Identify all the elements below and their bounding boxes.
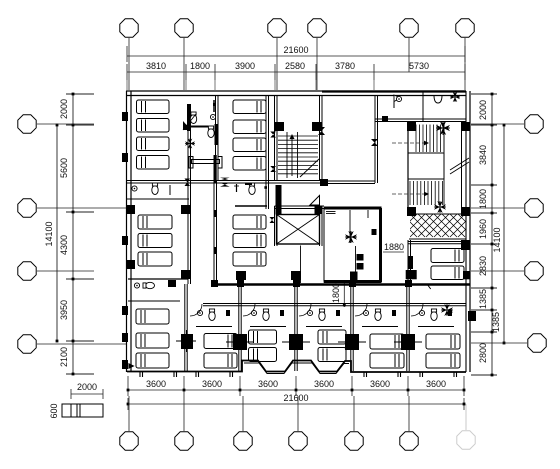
heavy room door stubs: [326, 211, 336, 213]
bottom module door arcs: [190, 304, 202, 316]
door line below elevator: [300, 246, 302, 284]
corridor door posts: [211, 280, 218, 287]
hatch walls: [409, 213, 466, 215]
label 1880: [383, 251, 404, 253]
bottom partitions: [184, 284, 186, 371]
fan top-right: [450, 92, 460, 102]
dim dots bottom: [127, 389, 130, 392]
wall room1/bath top-left: [187, 104, 189, 180]
stair break line: [300, 159, 319, 177]
grid bubble bottom 3: [242, 396, 244, 431]
wall hall/toilet top-right: [374, 95, 376, 121]
fan right stair bottom: [434, 201, 446, 213]
heavy room inner partition upper: [349, 210, 351, 243]
wall top-right rooms bottom: [375, 118, 466, 120]
bowtie stair wall lower: [270, 166, 276, 172]
bowties on mid-center top wall: [220, 178, 230, 181]
table below bath: [189, 157, 193, 169]
svg-text:4300: 4300: [59, 235, 69, 255]
left dim chain: [72, 94, 74, 374]
svg-text:1800: 1800: [331, 283, 341, 303]
svg-text:5600: 5600: [59, 158, 69, 178]
bed room1-2: [137, 119, 170, 133]
svg-text:2000: 2000: [59, 99, 69, 119]
column elevator left: [276, 185, 282, 215]
bottom-left fixtures: [134, 283, 139, 288]
outer wall top: [126, 90, 466, 92]
block heavy room bottom-left: [350, 272, 358, 281]
wall top band bottom: [126, 180, 322, 182]
bowtie stair wall upper: [270, 132, 276, 138]
toilet bath1: [190, 115, 196, 124]
svg-text:3600: 3600: [202, 379, 222, 389]
bowtie hall left wall: [318, 127, 325, 135]
column rstair B: [461, 122, 470, 131]
bed room1-1: [137, 100, 170, 114]
bed room1-3: [137, 137, 170, 151]
grid bubble right 4: [471, 342, 527, 344]
grid bubble top 3: [276, 38, 278, 90]
svg-text:2830: 2830: [478, 256, 488, 276]
door hall: [394, 95, 401, 102]
bottom-left module beds: [136, 309, 169, 324]
svg-text:3600: 3600: [426, 379, 446, 389]
heavy room stub right: [367, 210, 369, 218]
stair stringer: [286, 132, 288, 178]
bottom module 6 beds: [426, 334, 460, 349]
door bath1: [183, 121, 191, 130]
svg-text:1800: 1800: [478, 189, 488, 209]
bowtie left of elevator: [270, 217, 275, 223]
mid-left columns: [126, 205, 135, 214]
wardrobe blobs: [233, 334, 247, 350]
grid bubble bottom 4: [297, 396, 299, 431]
grid bubble bottom 1: [128, 396, 130, 431]
right stair rail diagonal: [450, 158, 469, 170]
svg-text:2000: 2000: [77, 382, 97, 392]
right module side columns: [461, 240, 470, 250]
grid bubble top 4: [316, 38, 318, 90]
svg-text:1385: 1385: [478, 289, 488, 309]
elevator door triangle: [310, 196, 320, 206]
grid bubble bottom 7 (light): [465, 404, 467, 430]
wall stairwell right: [319, 95, 321, 180]
bottom module 5 fixtures: [363, 310, 368, 315]
column rstair A: [407, 122, 416, 131]
grid bubble left 1: [37, 123, 94, 125]
grid bubble left 4: [37, 343, 127, 345]
bottom module 3 fixtures: [251, 310, 256, 315]
wall room2 right: [265, 95, 267, 180]
AC unit right exterior: [468, 311, 476, 321]
corridor north wall: [215, 283, 470, 286]
fan bottom right: [441, 304, 453, 316]
svg-text:3900: 3900: [235, 61, 255, 71]
bowtie hall right wall: [371, 139, 378, 146]
grid bubble bottom 6: [408, 396, 410, 431]
wall hall right: [374, 121, 376, 183]
grid bubble bottom 2: [183, 396, 185, 431]
wall stairwell left: [274, 95, 276, 180]
svg-text:2580: 2580: [285, 61, 305, 71]
mid-left module fixtures: [132, 186, 137, 191]
wall above elevator: [275, 205, 325, 207]
sink toprt: [396, 96, 401, 101]
grid bubble top 2: [183, 38, 185, 90]
column rstair C: [407, 207, 416, 216]
bottom facade wall: [127, 361, 466, 373]
wall mid-center module right: [265, 180, 267, 209]
desk heavy room: [357, 254, 364, 261]
grid bubble left 3: [37, 270, 94, 272]
grid bubble top 6: [464, 38, 466, 90]
elevator shaft: [277, 215, 320, 245]
grid bubble left 2: [37, 207, 127, 209]
facade window ticks: [139, 372, 141, 377]
bed room2-3: [233, 138, 266, 152]
svg-text:14100: 14100: [492, 227, 502, 252]
detail bed 2000x600: [62, 404, 103, 417]
grid bubble top 5: [408, 38, 410, 72]
corridor door jambs: [214, 210, 217, 217]
svg-text:600: 600: [49, 403, 59, 418]
fan bath: [185, 139, 195, 149]
fan right stair top: [436, 121, 450, 135]
bed room2-2: [233, 120, 266, 134]
wall hall bottom: [328, 180, 375, 182]
right module beds: [431, 249, 464, 263]
fan heavy room 2 mark: [372, 229, 377, 235]
wall right module left: [407, 240, 409, 284]
svg-text:1385: 1385: [491, 312, 501, 332]
bath pipe: [213, 100, 215, 112]
dim line bottom 3600 segments: [128, 389, 464, 391]
top wall heavy right segment: [322, 90, 466, 92]
M1 door wedge: [128, 363, 134, 369]
left wall marks: [122, 112, 128, 121]
bed room2-1: [233, 100, 266, 114]
mid-center columns: [236, 271, 246, 280]
right module black blobs: [408, 256, 413, 269]
stair direction arrow upper: [392, 142, 425, 144]
bed room2-4: [233, 157, 266, 171]
left dim 14100: [56, 125, 58, 341]
dim line 21600 top: [127, 55, 465, 57]
heavy room walls: [324, 207, 382, 210]
black wall segment bath right: [215, 124, 219, 145]
bottom module 3 beds: [249, 330, 277, 344]
wardrobe blob M1/M2: [181, 334, 193, 349]
column elevator right: [315, 206, 322, 214]
grid bubble right 3: [471, 270, 524, 272]
corridor south wall: [203, 303, 466, 305]
right dim chain: [491, 94, 493, 375]
mid-center module wall below fixtures: [235, 205, 267, 207]
grid bubble right 2: [471, 207, 524, 209]
svg-text:3600: 3600: [258, 379, 278, 389]
partition toilet room: [422, 92, 424, 121]
outer wall right: [469, 91, 471, 372]
svg-text:3810: 3810: [146, 61, 166, 71]
grid bubble bottom 5: [353, 396, 355, 431]
svg-text:3600: 3600: [314, 379, 334, 389]
wall right module top: [408, 241, 466, 243]
bed room1-4: [137, 156, 170, 170]
outer wall left: [126, 91, 128, 372]
svg-text:14100: 14100: [44, 221, 54, 246]
svg-text:1960: 1960: [478, 219, 488, 239]
right stair lower treads: [409, 181, 411, 205]
grid bubble right 1: [471, 123, 524, 125]
svg-text:3950: 3950: [59, 300, 69, 320]
bottom module 4 fixtures: [307, 310, 312, 315]
wall corridor-vert left: [187, 180, 189, 284]
bottom module 5 beds: [370, 334, 404, 349]
M1 bathroom north wall: [128, 278, 188, 280]
mid-left beds: [138, 215, 172, 229]
blob on toilet-room wall: [382, 116, 388, 121]
stair arrow up: [291, 138, 293, 176]
stair treads central: [278, 135, 318, 137]
column rstair D: [461, 207, 470, 216]
bottom module 2 beds: [204, 334, 237, 349]
svg-text:3780: 3780: [335, 61, 355, 71]
svg-text:21600: 21600: [283, 393, 308, 403]
svg-text:2100: 2100: [59, 347, 69, 367]
right stair treads upper: [415, 125, 417, 153]
right module door: [427, 284, 431, 289]
bath1 divider wall: [189, 126, 208, 128]
bottom module 2 fixtures: [197, 310, 202, 315]
wall corridor-vert right: [213, 180, 215, 284]
wall bath/room2: [215, 95, 217, 180]
svg-text:21600: 21600: [283, 45, 308, 55]
heavy room inner partition lower: [355, 246, 357, 278]
right stair mid stringer: [443, 124, 445, 205]
right stair left wall: [407, 122, 409, 214]
fan heavy room 1: [345, 231, 357, 243]
urinal: [434, 95, 442, 103]
svg-text:1800: 1800: [190, 61, 210, 71]
grid bubble top 1: [128, 38, 130, 90]
sink bath1: [210, 114, 215, 119]
toilet bath2: [208, 129, 214, 138]
mid-center module fixtures: [249, 186, 255, 195]
svg-text:1880: 1880: [384, 242, 404, 252]
elevator walls: [274, 206, 276, 246]
column stair B: [312, 122, 322, 131]
bottom module 4 beds: [318, 330, 346, 344]
right stair landing: [408, 153, 444, 179]
svg-text:3600: 3600: [370, 379, 390, 389]
svg-text:3840: 3840: [478, 145, 488, 165]
svg-text:2000: 2000: [478, 100, 488, 120]
right dim 14100: [503, 125, 505, 343]
column stair A: [274, 122, 284, 131]
dim line 21600 bottom: [128, 403, 464, 405]
dim line top segments: [127, 71, 465, 73]
svg-text:2800: 2800: [478, 343, 488, 363]
svg-text:5730: 5730: [409, 61, 429, 71]
corridor wall dark segment above: [214, 155, 217, 183]
svg-text:3600: 3600: [146, 379, 166, 389]
bottom module 6 fixtures: [419, 310, 424, 315]
mid-center beds: [233, 215, 266, 229]
stair direction arrow lower: [392, 193, 425, 195]
